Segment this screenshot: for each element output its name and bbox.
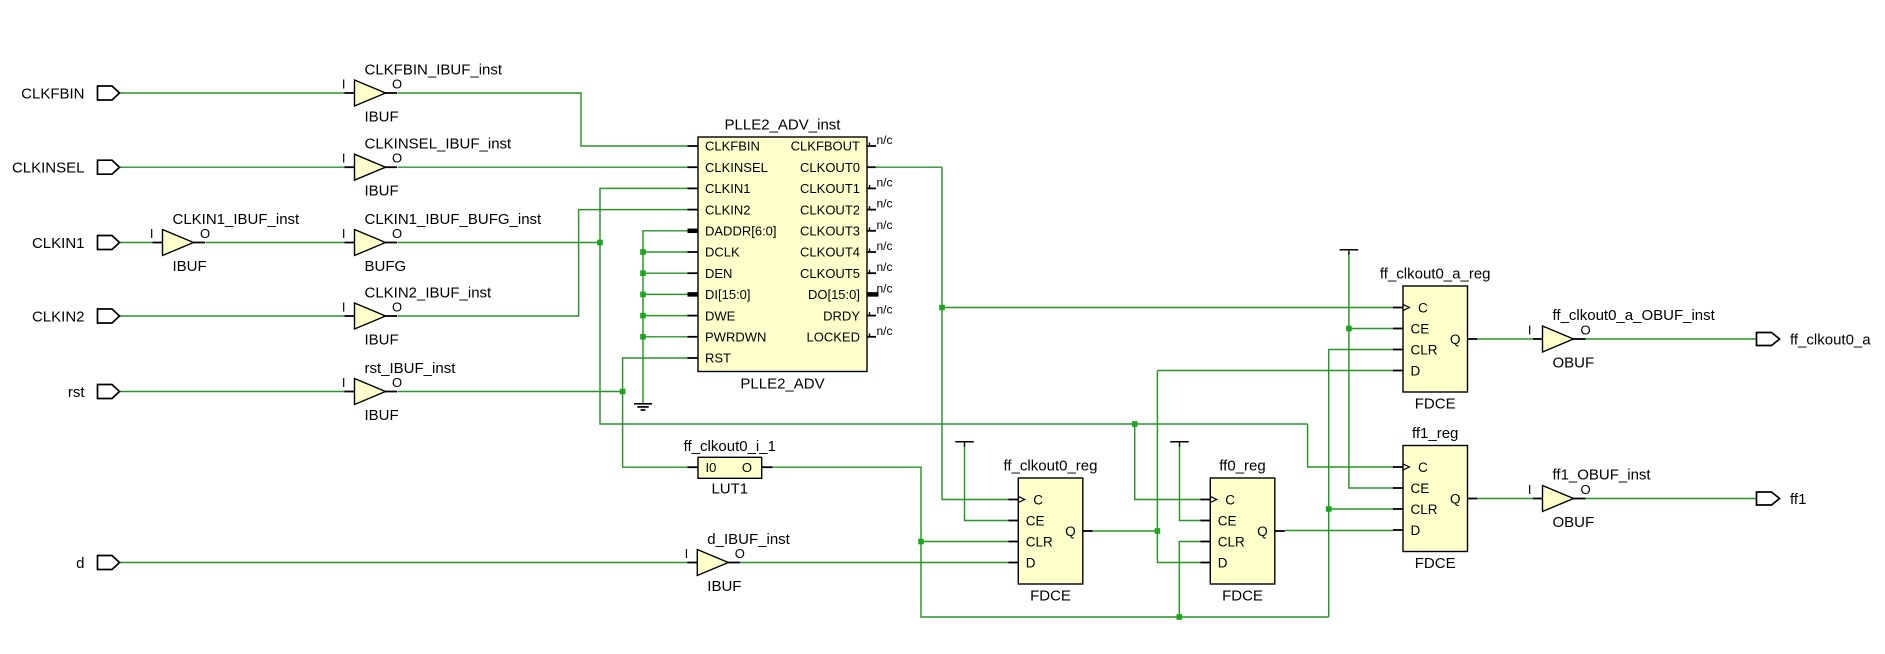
- svg-text:IBUF: IBUF: [707, 578, 741, 595]
- power symbol (const1 tie) at x=1179.5: [1170, 442, 1189, 447]
- svg-text:C: C: [1418, 300, 1428, 315]
- pin CLKOUT0 of PLLE2_ADV_inst: [800, 160, 875, 175]
- IBUF rst_IBUF_inst: [342, 360, 456, 424]
- power symbol (const1 tie) at x=964.5: [955, 442, 974, 447]
- pin CLKOUT3 of PLLE2_ADV_inst: [800, 218, 892, 239]
- junction: CLR net at ff_clkout0_reg CLR: [918, 539, 924, 545]
- junction: GND tie at PLL pin row 7: [640, 292, 646, 298]
- wire net ff1: Q of ff1_reg to OBUF to port: [1478, 498, 1757, 500]
- wire net rst: port to IBUF to PLL RST pin and LUT1 I0: [120, 358, 688, 467]
- svg-text:CLKOUT1: CLKOUT1: [800, 181, 860, 196]
- svg-text:CE: CE: [1026, 513, 1045, 528]
- BUFG CLKIN1_IBUF_BUFG_inst: [342, 211, 542, 275]
- wire net d: port to IBUF to ff_clkout0_reg D pin: [120, 562, 1009, 564]
- junction: const1 tie at ff_clkout0_a_reg CE: [1346, 326, 1352, 332]
- svg-text:ff1: ff1: [1790, 491, 1806, 508]
- svg-text:PWRDWN: PWRDWN: [705, 330, 766, 345]
- svg-text:n/c: n/c: [877, 175, 893, 189]
- pin CLKFBOUT of PLLE2_ADV_inst: [791, 133, 893, 154]
- svg-text:CE: CE: [1218, 513, 1237, 528]
- pin DO[15:0] of PLLE2_ADV_inst: [808, 281, 893, 302]
- wire net CLKFBIN: port to IBUF to PLL CLKFBIN pin: [120, 93, 688, 146]
- wire net ff_clkout0: Q of ff_clkout0_reg to D of ff_clkout0_a_reg and ff0_reg: [1093, 371, 1393, 563]
- svg-text:CLKIN1: CLKIN1: [705, 181, 751, 196]
- svg-text:CLKOUT0: CLKOUT0: [800, 160, 860, 175]
- svg-text:LOCKED: LOCKED: [807, 330, 860, 345]
- svg-text:Q: Q: [1257, 524, 1268, 539]
- junction: GND tie at PLL pin row 6: [640, 270, 646, 276]
- pin DEN of PLLE2_ADV_inst: [688, 266, 733, 281]
- buffer ff_clkout0_a_OBUF_inst (OBUF): [1528, 307, 1716, 372]
- svg-text:IBUF: IBUF: [365, 109, 399, 126]
- PLL block PLLE2_ADV_inst (PLLE2_ADV): [698, 117, 867, 393]
- flip-flop ff_clkout0_a_reg (FDCE): [1380, 266, 1491, 413]
- svg-text:IBUF: IBUF: [365, 407, 399, 424]
- svg-text:CE: CE: [1411, 481, 1430, 496]
- IBUF CLKINSEL_IBUF_inst: [342, 136, 512, 200]
- wire net CLKIN1: port to IBUF to BUFG to PLL CLKIN1 pin and FF clocks: [120, 188, 1394, 499]
- svg-text:CLKOUT3: CLKOUT3: [800, 224, 860, 239]
- svg-text:DADDR[6:0]: DADDR[6:0]: [705, 224, 777, 239]
- LUT ff_clkout0_i_1 (LUT1): [684, 438, 776, 498]
- svg-text:n/c: n/c: [877, 324, 893, 338]
- pin RST of PLLE2_ADV_inst: [688, 351, 732, 366]
- svg-text:CLKINSEL: CLKINSEL: [12, 160, 85, 177]
- junction: CLKOUT0 net to ff_clkout0_a_reg clock: [939, 305, 945, 311]
- svg-text:CLKFBIN: CLKFBIN: [705, 139, 760, 154]
- svg-text:O: O: [200, 226, 210, 241]
- svg-text:BUFG: BUFG: [365, 258, 407, 275]
- svg-text:LUT1: LUT1: [711, 481, 748, 498]
- svg-text:n/c: n/c: [877, 218, 893, 232]
- svg-text:ff1_reg: ff1_reg: [1412, 425, 1458, 442]
- svg-text:ff_clkout0_a_reg: ff_clkout0_a_reg: [1380, 266, 1491, 283]
- svg-text:FDCE: FDCE: [1030, 587, 1071, 604]
- junction: CLR net at ff0_reg CLR drop: [1177, 614, 1183, 620]
- svg-text:I: I: [342, 300, 346, 315]
- svg-text:I: I: [342, 226, 346, 241]
- svg-text:D: D: [1026, 555, 1036, 570]
- svg-text:I0: I0: [706, 460, 717, 475]
- svg-text:ff_clkout0_i_1: ff_clkout0_i_1: [684, 438, 776, 455]
- IBUF CLKFBIN_IBUF_inst: [342, 61, 503, 125]
- svg-text:Q: Q: [1065, 524, 1076, 539]
- wire net ff_clkout0_i_1 output to FDCE CLR pins: [773, 350, 1394, 618]
- svg-text:IBUF: IBUF: [365, 183, 399, 200]
- svg-text:d_IBUF_inst: d_IBUF_inst: [707, 531, 790, 548]
- svg-text:D: D: [1411, 523, 1421, 538]
- svg-text:DEN: DEN: [705, 266, 732, 281]
- pin PWRDWN of PLLE2_ADV_inst: [688, 330, 767, 345]
- svg-text:Q: Q: [1450, 491, 1461, 506]
- svg-text:CLKIN2_IBUF_inst: CLKIN2_IBUF_inst: [365, 284, 493, 301]
- output port ff_clkout0_a: [1757, 331, 1872, 348]
- pin CLKOUT2 of PLLE2_ADV_inst: [800, 197, 892, 218]
- svg-text:CLR: CLR: [1218, 534, 1245, 549]
- pin DI[15:0] of PLLE2_ADV_inst: [688, 287, 751, 302]
- flip-flop ff1_reg (FDCE): [1393, 425, 1478, 572]
- svg-text:n/c: n/c: [877, 281, 893, 295]
- svg-text:CLKIN2: CLKIN2: [32, 308, 85, 325]
- pin DWE of PLLE2_ADV_inst: [688, 308, 736, 323]
- svg-text:RST: RST: [705, 351, 731, 366]
- svg-text:FDCE: FDCE: [1222, 587, 1263, 604]
- input port CLKIN1: [32, 235, 120, 252]
- svg-text:I: I: [1528, 482, 1532, 497]
- svg-text:CLKIN2: CLKIN2: [705, 202, 751, 217]
- svg-text:I: I: [1528, 323, 1532, 338]
- pin DRDY of PLLE2_ADV_inst: [823, 303, 892, 324]
- pin DCLK of PLLE2_ADV_inst: [688, 245, 741, 260]
- svg-text:CE: CE: [1411, 321, 1430, 336]
- svg-text:O: O: [1580, 323, 1590, 338]
- svg-text:ff1_OBUF_inst: ff1_OBUF_inst: [1553, 466, 1652, 483]
- svg-text:CLKOUT4: CLKOUT4: [800, 245, 860, 260]
- junction: ff_clkout0 net split: [1155, 528, 1161, 534]
- svg-text:DO[15:0]: DO[15:0]: [808, 287, 860, 302]
- svg-text:n/c: n/c: [877, 260, 893, 274]
- svg-text:n/c: n/c: [877, 239, 893, 253]
- IBUF d_IBUF_inst: [685, 531, 791, 595]
- svg-text:CLR: CLR: [1411, 502, 1438, 517]
- wire net CLKOUT0: PLL CLKOUT0 to FF clocks: [876, 167, 1394, 499]
- svg-text:CLR: CLR: [1026, 534, 1053, 549]
- pin CLKIN1 of PLLE2_ADV_inst: [688, 181, 751, 196]
- svg-text:O: O: [392, 300, 402, 315]
- svg-text:PLLE2_ADV: PLLE2_ADV: [740, 375, 824, 392]
- svg-text:CLKIN1_IBUF_BUFG_inst: CLKIN1_IBUF_BUFG_inst: [365, 211, 543, 228]
- pin DADDR[6:0] of PLLE2_ADV_inst: [688, 224, 777, 239]
- svg-text:DI[15:0]: DI[15:0]: [705, 287, 751, 302]
- svg-text:ff_clkout0_a: ff_clkout0_a: [1790, 331, 1871, 348]
- svg-text:rst_IBUF_inst: rst_IBUF_inst: [365, 360, 457, 377]
- svg-text:C: C: [1033, 492, 1043, 507]
- svg-text:n/c: n/c: [877, 197, 893, 211]
- svg-text:ff_clkout0_reg: ff_clkout0_reg: [1004, 458, 1098, 475]
- pin CLKOUT1 of PLLE2_ADV_inst: [800, 175, 892, 196]
- pin LOCKED of PLLE2_ADV_inst: [807, 324, 893, 345]
- flip-flop ff0_reg (FDCE): [1200, 458, 1285, 605]
- svg-text:O: O: [1580, 482, 1590, 497]
- svg-text:C: C: [1225, 492, 1235, 507]
- svg-text:rst: rst: [68, 384, 85, 401]
- flip-flop ff_clkout0_reg (FDCE): [1004, 458, 1098, 605]
- buffer ff1_OBUF_inst (OBUF): [1528, 466, 1652, 531]
- junction: CLKIN1 net at BUFG output: [597, 240, 603, 246]
- svg-text:CLKOUT2: CLKOUT2: [800, 202, 860, 217]
- wire net ff_clkout0_a: Q of ff_clkout0_a_reg to OBUF to port: [1478, 338, 1757, 340]
- svg-text:CLKFBOUT: CLKFBOUT: [791, 139, 860, 154]
- ground symbol for PLL control pins: [634, 404, 652, 410]
- wire net CLKINSEL: port to IBUF to PLL CLKINSEL pin: [120, 166, 688, 168]
- wire net const1 tie to ff_clkout0_a_reg CE and ff1_reg CE: [1349, 252, 1393, 488]
- input port d: [76, 555, 119, 572]
- wire net GND ties to PLL DADDR/DCLK/DEN/DI/DWE/PWRDWN: [643, 231, 688, 404]
- svg-text:Q: Q: [1450, 332, 1461, 347]
- junction: CLKIN1 net to ff0_reg clock: [1132, 421, 1138, 427]
- junction: GND tie at PLL pin row 9: [640, 334, 646, 340]
- wire net ff0: Q of ff0_reg to D of ff1_reg: [1285, 530, 1393, 532]
- svg-text:I: I: [150, 226, 154, 241]
- junction: CLR net at ff1_reg CLR: [1326, 506, 1332, 512]
- junction: GND tie at PLL pin row 5: [640, 249, 646, 255]
- input port rst: [68, 384, 120, 401]
- svg-text:OBUF: OBUF: [1553, 355, 1595, 372]
- svg-text:ff0_reg: ff0_reg: [1219, 458, 1265, 475]
- svg-text:I: I: [342, 77, 346, 92]
- pin CLKIN2 of PLLE2_ADV_inst: [688, 202, 751, 217]
- wire net CLKIN2: port to IBUF to PLL CLKIN2 pin: [120, 210, 688, 316]
- wire net const1 tie to ff_clkout0_reg CE: [965, 444, 1009, 521]
- svg-text:n/c: n/c: [877, 133, 893, 147]
- pin CLKFBIN of PLLE2_ADV_inst: [688, 139, 760, 154]
- svg-text:CLKOUT5: CLKOUT5: [800, 266, 860, 281]
- wire net const1 tie to ff0_reg CE: [1180, 444, 1201, 521]
- svg-text:CLKIN1_IBUF_inst: CLKIN1_IBUF_inst: [173, 211, 301, 228]
- svg-text:CLR: CLR: [1411, 342, 1438, 357]
- svg-text:O: O: [735, 546, 745, 561]
- svg-text:DCLK: DCLK: [705, 245, 740, 260]
- junction: GND tie at PLL pin row 8: [640, 313, 646, 319]
- svg-text:PLLE2_ADV_inst: PLLE2_ADV_inst: [725, 117, 842, 134]
- svg-text:CLKFBIN_IBUF_inst: CLKFBIN_IBUF_inst: [365, 61, 503, 78]
- svg-text:DWE: DWE: [705, 308, 736, 323]
- svg-text:I: I: [342, 375, 346, 390]
- svg-text:FDCE: FDCE: [1415, 395, 1456, 412]
- svg-text:O: O: [742, 460, 752, 475]
- svg-text:CLKINSEL: CLKINSEL: [705, 160, 768, 175]
- svg-text:OBUF: OBUF: [1553, 514, 1595, 531]
- svg-text:D: D: [1218, 555, 1228, 570]
- svg-text:O: O: [392, 226, 402, 241]
- svg-text:CLKIN1: CLKIN1: [32, 235, 85, 252]
- power symbol (const1 tie) at x=1348.9: [1340, 250, 1359, 255]
- pin CLKINSEL of PLLE2_ADV_inst: [688, 160, 768, 175]
- svg-text:d: d: [76, 555, 84, 572]
- svg-text:n/c: n/c: [877, 303, 893, 317]
- svg-text:I: I: [342, 151, 346, 166]
- input port CLKIN2: [32, 308, 120, 325]
- svg-text:O: O: [392, 151, 402, 166]
- IBUF CLKIN1_IBUF_inst: [150, 211, 300, 275]
- svg-text:C: C: [1418, 460, 1428, 475]
- svg-text:CLKINSEL_IBUF_inst: CLKINSEL_IBUF_inst: [365, 136, 513, 153]
- svg-text:ff_clkout0_a_OBUF_inst: ff_clkout0_a_OBUF_inst: [1553, 307, 1716, 324]
- svg-text:O: O: [392, 375, 402, 390]
- svg-text:D: D: [1411, 363, 1421, 378]
- input port CLKINSEL: [12, 160, 120, 177]
- IBUF CLKIN2_IBUF_inst: [342, 284, 492, 348]
- svg-text:DRDY: DRDY: [823, 308, 860, 323]
- svg-text:I: I: [685, 546, 689, 561]
- output port ff1: [1757, 491, 1807, 508]
- pin CLKOUT4 of PLLE2_ADV_inst: [800, 239, 892, 260]
- svg-text:IBUF: IBUF: [365, 332, 399, 349]
- input port CLKFBIN: [21, 85, 119, 102]
- junction: rst net split to RST pin and LUT1: [620, 389, 626, 395]
- svg-text:FDCE: FDCE: [1415, 555, 1456, 572]
- svg-text:CLKFBIN: CLKFBIN: [21, 85, 84, 102]
- svg-text:O: O: [392, 77, 402, 92]
- pin CLKOUT5 of PLLE2_ADV_inst: [800, 260, 892, 281]
- svg-text:IBUF: IBUF: [173, 258, 207, 275]
